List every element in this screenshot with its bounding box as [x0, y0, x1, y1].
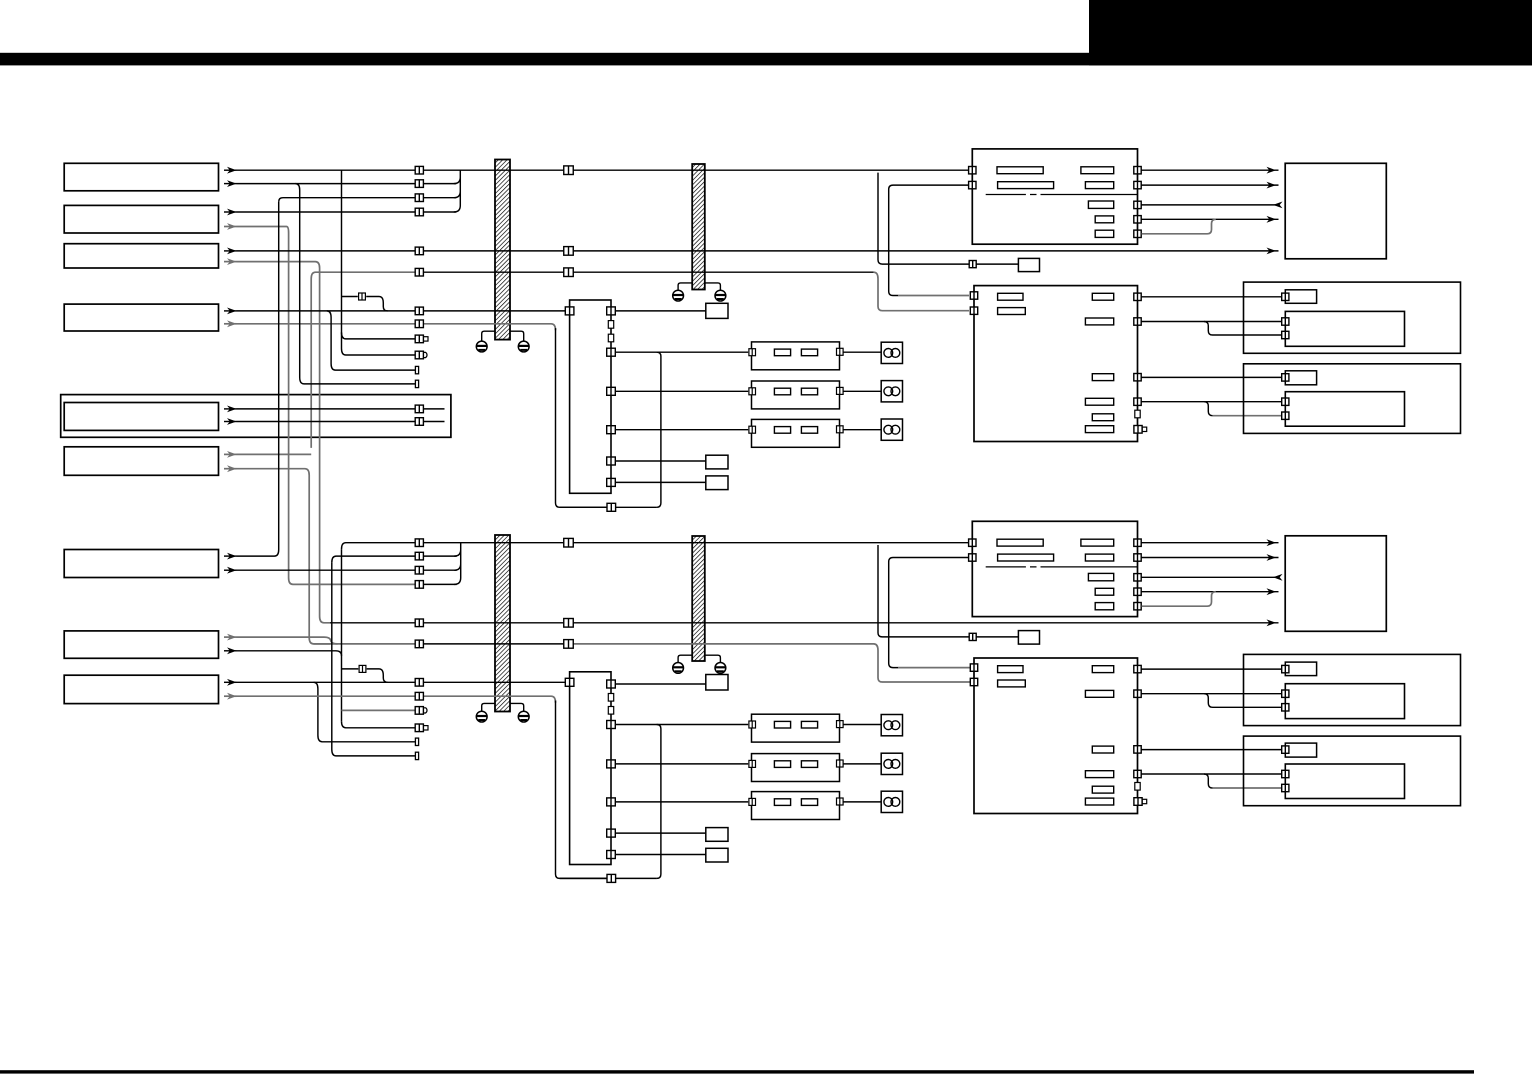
- unit B2 internal rect 2: [998, 680, 1026, 687]
- unit box L6: [64, 447, 218, 476]
- wire B2 row774 to spkbox D2 conn1: [1142, 773, 1282, 775]
- ground G4: [715, 290, 726, 301]
- connector CN2 row272: [564, 268, 574, 277]
- connector C2 inner 2: [1282, 704, 1289, 711]
- unit box L5 inner: [64, 403, 218, 431]
- ground G3: [673, 290, 684, 301]
- branch at 878 down to aux connector row 637: [878, 545, 969, 637]
- wire J2 row 724 to relay R4: [615, 724, 748, 726]
- V332 lower part to stub row 756: [332, 563, 416, 756]
- connector B2 tab row801: [1134, 798, 1147, 806]
- unit A2 internal rect 1: [997, 539, 1043, 546]
- connector CN row644: [415, 640, 423, 648]
- stub conn on J2 edge 710: [608, 707, 613, 715]
- unit box B: [974, 286, 1138, 442]
- speaker SP1: [881, 342, 902, 363]
- wire A2 grey row606 merge into row592: [1142, 592, 1216, 607]
- aux box AB5: [706, 675, 728, 691]
- unit B internal rect 5: [1092, 374, 1113, 381]
- connector CN below A: [969, 261, 976, 268]
- wire L4 pin2 grey row 324: [224, 323, 237, 325]
- bottom rule: [0, 1070, 1474, 1073]
- connector A2 right row592: [1134, 588, 1141, 595]
- unit box L5 outer: [61, 395, 451, 438]
- speaker C small box: [1285, 290, 1316, 304]
- branch V331 from row 311 to stub row 370: [327, 311, 416, 370]
- connector CN row272: [415, 268, 423, 276]
- stub conn on J1 edge 324: [608, 321, 613, 329]
- connector J2 right row 764: [607, 760, 616, 768]
- connector D2 inner 2: [1282, 784, 1289, 791]
- connector J2 right row 833: [607, 829, 616, 837]
- header black title block: [1089, 0, 1532, 65]
- connector B right row322: [1134, 318, 1141, 325]
- wire B2 row669 to spkbox C2: [1142, 668, 1282, 670]
- connector CN row421: [415, 418, 423, 426]
- ground strap under bar S2: [678, 283, 692, 290]
- connector J2 right row 684: [607, 680, 616, 688]
- unit box L4: [64, 304, 218, 331]
- wire J2 row 854 to aux box AB7: [615, 854, 706, 856]
- connector CN2 row622: [564, 619, 574, 628]
- connector B left row297: [970, 292, 977, 299]
- wire L1 pin2 row 183: [224, 183, 237, 185]
- wire row 272 from V311 to unit B conn2: [311, 272, 415, 448]
- unit B2 internal rect 7: [1092, 786, 1113, 793]
- wire R4 to speaker SP4: [843, 724, 881, 726]
- connector CN row324: [415, 320, 423, 328]
- wire B2 row694 to spkbox C2 conn1: [1142, 693, 1282, 695]
- ground strap under bar S1: [482, 331, 495, 341]
- connector shield bar S1: [495, 160, 510, 340]
- speaker unit D2 outer: [1244, 736, 1461, 806]
- connector CN tab row 339: [415, 335, 428, 343]
- connector A right row170: [1134, 167, 1141, 174]
- connector D inner 1: [1282, 398, 1289, 405]
- connector CN row682: [415, 679, 423, 687]
- aux box AB7: [706, 848, 728, 862]
- wire J1 row 482 to aux box AB3: [615, 481, 706, 483]
- speaker SP5: [881, 753, 902, 774]
- tap row 728 tab: [342, 721, 415, 728]
- connector CN row250: [415, 247, 423, 255]
- relay R6: [749, 792, 843, 820]
- wire L7 pin2 row 570: [224, 569, 237, 571]
- wire A2 left row557 to unit B2 conn1: [889, 558, 969, 668]
- wire J2 row 833 to aux box AB6: [615, 832, 706, 834]
- bottom feed wire row 878: [560, 877, 657, 879]
- wire row 197 from junction V278: [279, 198, 415, 202]
- wire L5 pin1 row 409: [224, 408, 237, 410]
- connector CN rca row 710: [415, 707, 427, 715]
- connector CN row584: [415, 581, 423, 589]
- unit box L3: [64, 244, 218, 268]
- connector A right row205: [1134, 201, 1141, 208]
- unit B internal rect 4: [1085, 318, 1113, 325]
- unit B internal rect 6: [1085, 398, 1113, 405]
- connector C inner 2: [1282, 331, 1289, 338]
- wire L7 pin1 row 556 up V278: [224, 555, 237, 557]
- wire L3 pin1 row 250 long line to IC box: [224, 250, 237, 252]
- connector CN row409: [415, 405, 423, 413]
- connector J2 right row 724: [607, 721, 616, 729]
- connector J2 left row 682: [565, 678, 574, 686]
- connector J1 bottom: [607, 503, 616, 511]
- connector B right row377: [1134, 374, 1141, 381]
- speaker unit C2 outer: [1244, 654, 1461, 725]
- wire L9 pin2 grey row 696: [224, 695, 237, 697]
- unit A internal rect 2: [1081, 167, 1114, 174]
- wire A2 out row592: [1142, 591, 1279, 593]
- branch vertical 661 row724 to bottom wire: [657, 725, 661, 879]
- connector CN2 row250: [564, 247, 574, 256]
- jumper row 294 with inline connector: [342, 297, 388, 311]
- connector A2 right row577: [1134, 574, 1141, 581]
- unit A2 divider dashed line: [986, 566, 1138, 568]
- connector C2 inner 1: [1282, 690, 1289, 697]
- row 543 head from V341b: [342, 543, 415, 550]
- unit B2 internal rect 8: [1085, 798, 1113, 805]
- speaker D small box: [1285, 371, 1316, 385]
- connector A2 left row543: [969, 539, 976, 546]
- wire long row 250 arrowhead done above — none: [0, 0, 1, 1]
- speaker SP4: [881, 715, 902, 736]
- aux box AB3: [706, 476, 728, 490]
- connector B2 left row668: [970, 664, 977, 671]
- tap row 710 rca grey: [342, 709, 415, 711]
- unit box L8: [64, 631, 218, 658]
- connector J1 right row 352: [607, 348, 616, 356]
- aux box AB8: [1018, 631, 1039, 645]
- connector C2 small: [1282, 665, 1289, 672]
- unit A internal rect 1: [997, 167, 1043, 174]
- connector B right row297: [1134, 293, 1141, 300]
- IC box top: [1285, 163, 1386, 258]
- unit box L2: [64, 205, 218, 233]
- inline connector CN-J2: [359, 665, 366, 672]
- speaker D inner box: [1285, 392, 1404, 427]
- wire J1 row 461 to aux box AB2: [615, 460, 706, 462]
- ground G1: [476, 341, 487, 352]
- branch row322 down to C conn2: [1204, 322, 1281, 336]
- unit box B2: [974, 658, 1138, 814]
- connector A right row185: [1134, 181, 1141, 188]
- unit A internal rect 3: [998, 182, 1054, 189]
- stub terminal row 370: [415, 366, 418, 373]
- speaker SP6: [881, 791, 902, 812]
- relay R5: [749, 754, 843, 782]
- row 644 wire: [314, 643, 415, 645]
- wire L2 pin2 grey row 227 down V288 to row 584: [224, 226, 237, 228]
- connector J1 right row 430: [607, 426, 616, 434]
- junction block J2: [570, 672, 611, 865]
- unit A2 internal rect 3: [998, 554, 1054, 561]
- connector CN row183: [415, 180, 423, 188]
- unit box L9: [64, 675, 218, 703]
- unit B internal rect 3: [1092, 293, 1113, 300]
- ground strap under bar S4: [678, 655, 692, 662]
- connector A right row219: [1134, 216, 1141, 223]
- connector B left row311: [970, 307, 977, 314]
- inline connector CN-J1: [359, 293, 366, 300]
- connector CN2 row170: [564, 166, 574, 175]
- wire A out row219 to IC box: [1142, 218, 1279, 220]
- connector CN row311: [415, 307, 423, 315]
- connector shield bar S4: [692, 536, 705, 661]
- stub conn on J2 edge 697: [608, 694, 613, 702]
- stub terminal row 742: [415, 738, 418, 745]
- wire J2 row 764 to relay R5: [615, 763, 748, 765]
- branch V300 from row 183 to stub row 384: [295, 184, 415, 384]
- wire J1 row 352 to relay R1: [615, 351, 748, 353]
- connector CN row622: [415, 619, 423, 627]
- unit A divider dashed line: [986, 194, 1138, 196]
- connector B2 right row774: [1134, 770, 1141, 777]
- row 622 from V320: [330, 622, 415, 624]
- wire L8 pin2 row 651 join V341b: [224, 650, 237, 652]
- connector D small: [1282, 374, 1289, 381]
- wire grey vertical 555 down to block bottom wire: [556, 328, 608, 507]
- relay R4: [749, 714, 843, 742]
- branch at 878 down to aux connector row 264: [878, 173, 969, 265]
- wire to aux box AB8: [976, 636, 1018, 638]
- connector B2 left row682: [970, 678, 977, 685]
- unit A2 internal rect 4: [1085, 554, 1113, 561]
- wire A out row185 to IC box: [1142, 184, 1279, 186]
- ground G2: [518, 341, 529, 352]
- connector A2 right row606: [1134, 603, 1141, 610]
- wire R1 to speaker SP1: [843, 351, 881, 353]
- connector A2 right row543: [1134, 539, 1141, 546]
- connector J1 right row 482: [607, 478, 616, 486]
- wire L6 pin2 grey row 469 down V309 to row 644: [224, 468, 237, 470]
- wire B row322 to spkbox C conn1: [1142, 321, 1282, 323]
- unit box A: [972, 149, 1137, 244]
- wire R2 to speaker SP2: [843, 390, 881, 392]
- connector CN tab row 728: [415, 724, 428, 732]
- wire B row402 to spkbox D conn1: [1142, 401, 1282, 403]
- branch row774 down to D2 conn2 grey: [1204, 774, 1213, 788]
- header black band: [0, 53, 1532, 66]
- connector A2 right row557: [1134, 554, 1141, 561]
- grey vertical 555 to block2 bottom wire: [556, 701, 608, 879]
- speaker C2 inner box: [1285, 684, 1404, 719]
- wire B row377 to spkbox D: [1142, 376, 1282, 378]
- unit A internal rect 7: [1095, 230, 1114, 237]
- IC box bottom: [1285, 536, 1386, 632]
- aux box AB4: [1018, 258, 1039, 271]
- connector C small: [1282, 293, 1289, 300]
- connector B tab row429: [1134, 426, 1147, 434]
- wire L3 pin2 grey row 262 down V320 to row 622: [224, 261, 237, 263]
- connector C inner 1: [1282, 318, 1289, 325]
- connector CN row570: [415, 566, 423, 574]
- wire A out row170 to IC box: [1142, 169, 1279, 171]
- aux box AB6: [706, 828, 728, 842]
- row 556 segment from V332: [332, 556, 415, 563]
- wire J1 to aux box row 311: [615, 310, 706, 312]
- connector J1 right row 311: [607, 307, 616, 315]
- unit B2 internal rect 5: [1092, 746, 1113, 753]
- unit box L7: [64, 550, 218, 578]
- connector A left row170: [969, 167, 976, 174]
- bottom merge vertical 461: [454, 543, 461, 585]
- unit box A2: [972, 521, 1137, 616]
- ground G7: [673, 663, 684, 674]
- connector A right row234: [1134, 230, 1141, 237]
- connector CN row212: [415, 208, 423, 216]
- relay R3: [749, 419, 843, 447]
- vertical V341b: [341, 549, 343, 721]
- wire A in row205 from IC box: [1142, 204, 1279, 206]
- unit B internal rect 1: [998, 293, 1023, 300]
- unit A2 internal rect 7: [1095, 603, 1114, 610]
- wire A grey row234 merge into row219: [1142, 219, 1216, 234]
- unit box L1: [64, 163, 218, 191]
- wire A2 in row577: [1142, 576, 1279, 578]
- unit B2 internal rect 3: [1092, 666, 1113, 673]
- wire R3 to speaker SP3: [843, 429, 881, 431]
- row 584 tail: [424, 583, 457, 585]
- connector J1 right row 391: [607, 387, 616, 395]
- ground G8: [715, 663, 726, 674]
- tap row 355 rca: [342, 349, 415, 356]
- wire J2 to aux box row 684: [615, 683, 706, 685]
- wire A2 out row557: [1142, 557, 1279, 559]
- connector B2 right row749: [1134, 746, 1141, 753]
- ground strap under bar S3: [482, 703, 495, 711]
- wire R5 to speaker SP5: [843, 763, 881, 765]
- speaker D2 small box: [1285, 743, 1316, 757]
- branch row694 down to C2 conn2: [1204, 694, 1281, 708]
- connector D2 small: [1282, 746, 1289, 753]
- speaker SP2: [881, 381, 902, 402]
- speaker C2 small box: [1285, 662, 1316, 676]
- branch V318 from row 682 to stub row 742: [314, 682, 416, 742]
- connector A2 left row557: [969, 554, 976, 561]
- unit A internal rect 4: [1085, 182, 1113, 189]
- speaker unit C outer: [1244, 282, 1461, 353]
- connector B2 right row669: [1134, 665, 1141, 672]
- stub terminal row 384: [415, 380, 418, 387]
- wire L8 pin1 grey row 637 merge into row 644: [224, 636, 237, 638]
- connector CN below A2: [969, 633, 976, 640]
- connector CN row556: [415, 552, 423, 560]
- bottom feed wire row 507: [560, 506, 657, 508]
- wire J1 row 391 to relay R2: [615, 390, 748, 392]
- speaker unit D outer: [1244, 364, 1461, 434]
- wire J1 row 430 to relay R3: [615, 429, 748, 431]
- junction block J1: [570, 300, 611, 493]
- connector CN2 row644: [564, 640, 574, 649]
- jumper row 667 with connector: [342, 669, 388, 682]
- relay R2: [749, 381, 843, 409]
- unit A2 internal rect 2: [1081, 539, 1114, 546]
- connector shield bar S2: [692, 164, 705, 290]
- unit B2 internal rect 4: [1085, 690, 1113, 697]
- connector J1 right row 461: [607, 457, 616, 465]
- wire L6 pin1 grey row 454: [224, 453, 237, 455]
- connector B2 right row694: [1134, 690, 1141, 697]
- connector J2 right row 854: [607, 851, 616, 859]
- connector CN row696: [415, 692, 423, 700]
- wire L1 pin1 net row 170: [224, 169, 237, 171]
- wire J2 row 802 to relay R6: [615, 801, 748, 803]
- branch vertical V341 from row 170: [341, 170, 343, 348]
- wire L9 pin1 row 682: [224, 681, 237, 683]
- unit A2 internal rect 6: [1095, 588, 1114, 595]
- aux box AB2: [706, 455, 728, 469]
- wire to aux box AB4: [976, 263, 1018, 265]
- speaker D2 inner box: [1285, 764, 1404, 799]
- ground G6: [518, 711, 529, 722]
- tap row 339 square-tab: [342, 332, 415, 339]
- aux box AB1: [706, 303, 728, 318]
- wire L5 pin2 row 421: [224, 421, 237, 423]
- wire L4 pin1 row 311 to relay block: [224, 310, 237, 312]
- branch row402 down to D conn2 grey: [1204, 402, 1213, 416]
- merge vertical at 460: [454, 170, 461, 212]
- unit B internal rect 2: [998, 308, 1026, 315]
- unit B2 internal rect 1: [998, 666, 1023, 673]
- unit A2 internal rect 5: [1088, 573, 1113, 580]
- connector J1 left row 311: [565, 307, 574, 315]
- unit B2 internal rect 6: [1085, 771, 1113, 778]
- connector CN row170: [415, 166, 423, 174]
- connector J2 right row 802: [607, 798, 616, 806]
- stub conn B2 edge 786: [1135, 783, 1140, 791]
- unit B internal rect 8: [1085, 426, 1113, 433]
- wire A left row185 to unit B conn1: [889, 185, 969, 295]
- unit A internal rect 5: [1088, 201, 1113, 208]
- wire B row297 to spkbox C: [1142, 296, 1282, 298]
- wire B2 row749 to spkbox D2: [1142, 749, 1282, 751]
- speaker C inner box: [1285, 311, 1404, 346]
- connector CN rca row 355: [415, 351, 427, 359]
- connector B right row402: [1134, 398, 1141, 405]
- speaker SP3: [881, 419, 902, 440]
- wire R6 to speaker SP6: [843, 801, 881, 803]
- unit B internal rect 7: [1092, 414, 1113, 421]
- unit A internal rect 6: [1095, 216, 1114, 223]
- connector CN row543: [415, 539, 423, 547]
- connector shield bar S3: [495, 535, 510, 712]
- stub conn B edge 414: [1135, 410, 1140, 418]
- connector A left row185: [969, 181, 976, 188]
- stub terminal row 756: [415, 752, 418, 759]
- connector CN row197: [415, 194, 423, 202]
- wire A2 out row543: [1142, 542, 1279, 544]
- branch vertical 661 from row 352 to bottom wire: [657, 352, 661, 507]
- connector D2 inner 1: [1282, 770, 1289, 777]
- stub conn on J1 edge 338: [608, 334, 613, 342]
- ground G5: [476, 711, 487, 722]
- connector D inner 2: [1282, 412, 1289, 419]
- connector J2 bottom: [607, 874, 616, 882]
- wire L2 pin1 row 212: [224, 211, 237, 213]
- relay R1: [749, 342, 843, 370]
- connector CN2 row543: [564, 538, 574, 547]
